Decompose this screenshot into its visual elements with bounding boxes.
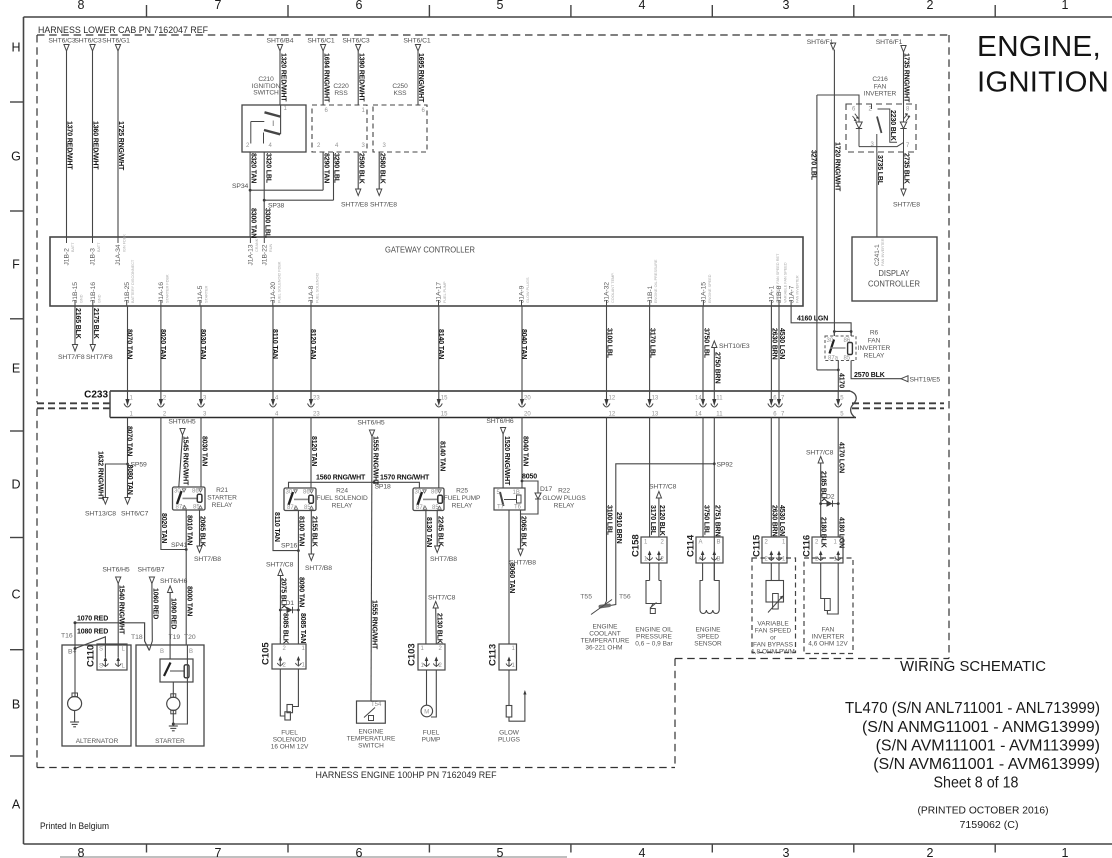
svg-text:8140 TAN: 8140 TAN bbox=[438, 441, 445, 471]
svg-text:2: 2 bbox=[927, 0, 934, 12]
svg-text:1540 RNG/WHT: 1540 RNG/WHT bbox=[118, 585, 125, 635]
svg-text:SHT6/H5: SHT6/H5 bbox=[102, 567, 130, 574]
svg-text:2570 BLK: 2570 BLK bbox=[854, 372, 885, 379]
svg-text:FUEL PUMP: FUEL PUMP bbox=[443, 281, 447, 303]
svg-text:7159062 (C): 7159062 (C) bbox=[960, 819, 1019, 831]
svg-text:B: B bbox=[12, 698, 20, 712]
svg-text:2155 BLK: 2155 BLK bbox=[311, 516, 318, 547]
svg-text:T18: T18 bbox=[131, 634, 143, 641]
svg-text:J1A-17: J1A-17 bbox=[436, 282, 443, 303]
svg-text:T7: T7 bbox=[497, 505, 505, 511]
svg-text:SWITCH: SWITCH bbox=[253, 90, 279, 97]
svg-text:2165 BLK: 2165 BLK bbox=[74, 308, 81, 339]
svg-text:4: 4 bbox=[639, 846, 646, 858]
svg-text:COOLANT: COOLANT bbox=[589, 631, 620, 638]
svg-text:BATT: BATT bbox=[71, 242, 75, 252]
svg-text:SHT13/C8: SHT13/C8 bbox=[85, 511, 116, 518]
svg-text:1070 RED: 1070 RED bbox=[77, 615, 108, 622]
svg-text:86: 86 bbox=[844, 338, 851, 344]
svg-text:DISPLAY: DISPLAY bbox=[879, 268, 910, 278]
svg-text:87a: 87a bbox=[828, 356, 839, 362]
svg-text:WIRING SCHEMATIC: WIRING SCHEMATIC bbox=[900, 658, 1046, 675]
svg-text:4: 4 bbox=[639, 0, 646, 12]
svg-text:PUMP: PUMP bbox=[422, 737, 441, 744]
svg-text:F: F bbox=[12, 258, 20, 272]
svg-text:15: 15 bbox=[441, 412, 448, 418]
svg-text:E: E bbox=[12, 362, 20, 376]
svg-text:SHT6/B7: SHT6/B7 bbox=[138, 567, 165, 574]
svg-text:1080 RED: 1080 RED bbox=[77, 629, 108, 636]
svg-text:Sheet 8 of 18: Sheet 8 of 18 bbox=[934, 775, 1019, 792]
svg-text:J1B-2: J1B-2 bbox=[64, 248, 71, 266]
svg-text:T16: T16 bbox=[61, 633, 73, 640]
svg-text:T55: T55 bbox=[580, 594, 592, 601]
svg-text:J1B-8: J1B-8 bbox=[776, 285, 783, 303]
svg-text:VARIABLE FAN SPEED: VARIABLE FAN SPEED bbox=[784, 262, 788, 303]
svg-text:STARTER FDBK: STARTER FDBK bbox=[165, 274, 169, 303]
svg-text:SWITCH: SWITCH bbox=[358, 743, 384, 750]
svg-text:STARTER: STARTER bbox=[155, 738, 185, 745]
svg-text:HARNESS LOWER CAB PN 7162047 R: HARNESS LOWER CAB PN 7162047 REF bbox=[38, 25, 209, 35]
svg-text:0,6 ~ 0,9 Bar: 0,6 ~ 0,9 Bar bbox=[635, 641, 673, 648]
svg-text:J1B-15: J1B-15 bbox=[72, 282, 79, 303]
svg-text:J1A-32: J1A-32 bbox=[604, 282, 611, 303]
svg-text:4170: 4170 bbox=[837, 373, 844, 388]
svg-text:8120 TAN: 8120 TAN bbox=[310, 436, 317, 466]
svg-text:20: 20 bbox=[524, 412, 531, 418]
svg-text:8080 TAN: 8080 TAN bbox=[126, 465, 133, 495]
svg-text:1555 RNG/WHT: 1555 RNG/WHT bbox=[371, 600, 378, 650]
svg-text:SHT7/C8: SHT7/C8 bbox=[806, 449, 834, 456]
svg-text:SHT7/E8: SHT7/E8 bbox=[370, 202, 397, 209]
svg-text:FAN INVERTER: FAN INVERTER bbox=[796, 275, 800, 303]
svg-text:SHT19/E5: SHT19/E5 bbox=[910, 377, 941, 384]
svg-text:8040 TAN: 8040 TAN bbox=[521, 436, 528, 466]
svg-text:14: 14 bbox=[695, 412, 702, 418]
svg-text:COOLANT TEMP.: COOLANT TEMP. bbox=[611, 273, 615, 303]
svg-text:8085 TAN: 8085 TAN bbox=[299, 613, 306, 643]
svg-text:1,8 OHM PWM: 1,8 OHM PWM bbox=[751, 649, 795, 656]
svg-text:2735 BLK: 2735 BLK bbox=[903, 153, 910, 184]
svg-text:(S/N AVM611001 - AVM613999): (S/N AVM611001 - AVM613999) bbox=[873, 756, 1100, 773]
svg-text:C233: C233 bbox=[84, 390, 108, 401]
svg-text:2230 BLK: 2230 BLK bbox=[889, 110, 896, 141]
svg-text:SHT6/F1: SHT6/F1 bbox=[876, 39, 903, 46]
svg-text:3320 LBL: 3320 LBL bbox=[265, 153, 272, 184]
svg-text:FUEL SOLENOID: FUEL SOLENOID bbox=[316, 495, 368, 502]
svg-text:J1A-7: J1A-7 bbox=[788, 285, 795, 303]
svg-text:FAN: FAN bbox=[822, 627, 835, 634]
svg-text:1B: 1B bbox=[513, 490, 520, 496]
svg-text:3: 3 bbox=[783, 846, 790, 858]
svg-text:M: M bbox=[424, 710, 429, 716]
svg-text:1390 RED/WHT: 1390 RED/WHT bbox=[357, 53, 364, 102]
svg-text:ENGINE: ENGINE bbox=[696, 627, 722, 634]
svg-text:A: A bbox=[12, 798, 21, 812]
svg-text:SP92: SP92 bbox=[717, 462, 734, 469]
svg-text:36-221 OHM: 36-221 OHM bbox=[585, 645, 622, 652]
svg-text:SHT7/E8: SHT7/E8 bbox=[893, 202, 920, 209]
svg-text:4160 LGN: 4160 LGN bbox=[797, 316, 828, 323]
svg-text:J1B-16: J1B-16 bbox=[90, 282, 97, 303]
svg-text:SHT6/C1: SHT6/C1 bbox=[307, 38, 335, 45]
svg-text:TEMPERATURE: TEMPERATURE bbox=[347, 736, 396, 743]
svg-text:FUEL PUMP: FUEL PUMP bbox=[444, 495, 481, 502]
svg-text:3100 LBL: 3100 LBL bbox=[606, 505, 613, 536]
svg-text:2910 BRN: 2910 BRN bbox=[615, 512, 622, 544]
svg-text:CONTROLLER: CONTROLLER bbox=[868, 279, 920, 289]
svg-text:3290 LBL: 3290 LBL bbox=[333, 153, 340, 184]
svg-text:SHT6/H6: SHT6/H6 bbox=[160, 578, 188, 585]
svg-text:(S/N AVM111001 - AVM113999): (S/N AVM111001 - AVM113999) bbox=[876, 738, 1100, 755]
svg-text:T6: T6 bbox=[514, 505, 522, 511]
svg-text:3735 LBL: 3735 LBL bbox=[876, 155, 883, 186]
svg-text:RELAY: RELAY bbox=[332, 503, 353, 510]
svg-text:11: 11 bbox=[716, 396, 723, 402]
svg-text:INVERTER: INVERTER bbox=[812, 634, 845, 641]
svg-text:2750 BRN: 2750 BRN bbox=[713, 352, 720, 384]
svg-text:15: 15 bbox=[441, 396, 448, 402]
svg-text:23: 23 bbox=[313, 412, 320, 418]
svg-text:4170 LGN: 4170 LGN bbox=[837, 442, 844, 473]
svg-text:C: C bbox=[11, 588, 20, 602]
svg-text:ENGINE: ENGINE bbox=[359, 729, 385, 736]
svg-text:B: B bbox=[160, 649, 164, 655]
svg-text:5: 5 bbox=[497, 0, 504, 12]
svg-text:SHT7/B8: SHT7/B8 bbox=[509, 560, 536, 567]
svg-text:8140 TAN: 8140 TAN bbox=[437, 329, 444, 359]
svg-text:1320 RED/WHT: 1320 RED/WHT bbox=[280, 53, 287, 102]
svg-text:1360 RED/WHT: 1360 RED/WHT bbox=[92, 121, 99, 170]
svg-text:ENGINE OIL: ENGINE OIL bbox=[635, 627, 673, 634]
svg-text:30: 30 bbox=[286, 490, 293, 496]
svg-text:SHT6/H5: SHT6/H5 bbox=[168, 419, 196, 426]
svg-text:J1B-1: J1B-1 bbox=[647, 285, 654, 303]
svg-text:3170 LBL: 3170 LBL bbox=[649, 328, 656, 359]
svg-text:2065 BLK: 2065 BLK bbox=[520, 516, 527, 547]
svg-text:1560 RNG/WHT: 1560 RNG/WHT bbox=[316, 475, 366, 482]
svg-text:SHT7/C8: SHT7/C8 bbox=[428, 595, 456, 602]
svg-text:INVERTER: INVERTER bbox=[864, 91, 897, 98]
svg-text:8: 8 bbox=[78, 846, 85, 858]
svg-text:RSS: RSS bbox=[334, 90, 348, 97]
svg-text:8290 TAN: 8290 TAN bbox=[322, 153, 329, 183]
svg-text:J1B-22: J1B-22 bbox=[262, 244, 269, 265]
svg-text:8050: 8050 bbox=[522, 474, 537, 481]
svg-text:FAN INVERTER: FAN INVERTER bbox=[881, 238, 885, 266]
svg-text:8030 TAN: 8030 TAN bbox=[199, 329, 206, 359]
svg-text:J1A-9: J1A-9 bbox=[519, 285, 526, 303]
svg-text:C216: C216 bbox=[872, 76, 888, 83]
svg-text:GND: GND bbox=[97, 294, 101, 303]
svg-text:IGN FDBK: IGN FDBK bbox=[123, 234, 127, 252]
svg-text:GLOW PLUGS: GLOW PLUGS bbox=[526, 277, 530, 303]
svg-text:85: 85 bbox=[844, 356, 851, 362]
svg-text:SHT6/G1: SHT6/G1 bbox=[102, 38, 130, 45]
svg-text:6: 6 bbox=[356, 0, 363, 12]
svg-text:SHT7/B8: SHT7/B8 bbox=[194, 556, 221, 563]
svg-text:8: 8 bbox=[78, 0, 85, 12]
svg-text:2630 BRN: 2630 BRN bbox=[771, 505, 778, 537]
svg-text:SHT7/F8: SHT7/F8 bbox=[58, 354, 85, 361]
svg-text:SHT6/H6: SHT6/H6 bbox=[486, 418, 514, 425]
svg-text:D1: D1 bbox=[286, 600, 295, 607]
svg-text:SHT7/F8: SHT7/F8 bbox=[86, 354, 113, 361]
svg-text:1: 1 bbox=[1062, 846, 1069, 858]
svg-text:J1A-8: J1A-8 bbox=[308, 285, 315, 303]
svg-text:SPEED: SPEED bbox=[697, 634, 719, 641]
svg-text:SHT6/H5: SHT6/H5 bbox=[357, 420, 385, 427]
svg-text:23: 23 bbox=[313, 396, 320, 402]
svg-text:SP16: SP16 bbox=[281, 543, 298, 550]
svg-text:3300 LBL: 3300 LBL bbox=[263, 208, 270, 239]
svg-text:SHT6/C3: SHT6/C3 bbox=[74, 38, 102, 45]
svg-text:7: 7 bbox=[215, 0, 222, 12]
svg-text:R6: R6 bbox=[870, 330, 879, 337]
svg-text:1570 RNG/WHT: 1570 RNG/WHT bbox=[380, 475, 430, 482]
svg-text:SP34: SP34 bbox=[232, 183, 249, 190]
svg-text:A: A bbox=[699, 540, 703, 546]
svg-text:1632 RNG/WHT: 1632 RNG/WHT bbox=[97, 451, 104, 501]
svg-text:STARTER: STARTER bbox=[207, 495, 237, 502]
svg-text:FAN BYPASS: FAN BYPASS bbox=[753, 642, 794, 649]
svg-text:ENGINE SPEED: ENGINE SPEED bbox=[708, 274, 712, 303]
svg-text:8020 TAN: 8020 TAN bbox=[160, 513, 167, 543]
svg-text:R21: R21 bbox=[216, 487, 228, 494]
svg-text:C105: C105 bbox=[261, 642, 272, 665]
svg-text:J1A-1: J1A-1 bbox=[769, 285, 776, 303]
svg-text:J1A-5: J1A-5 bbox=[197, 285, 204, 303]
svg-text:8110 TAN: 8110 TAN bbox=[271, 329, 278, 359]
svg-text:7: 7 bbox=[215, 846, 222, 858]
svg-text:S: S bbox=[99, 647, 103, 653]
svg-text:4530 LGN: 4530 LGN bbox=[778, 505, 785, 536]
svg-text:5: 5 bbox=[497, 846, 504, 858]
svg-text:8060 TAN: 8060 TAN bbox=[508, 563, 515, 593]
svg-text:SHT7/C8: SHT7/C8 bbox=[649, 483, 677, 490]
svg-text:8100 TAN: 8100 TAN bbox=[298, 516, 305, 546]
svg-text:2: 2 bbox=[927, 846, 934, 858]
svg-text:S: S bbox=[99, 664, 103, 670]
svg-text:30: 30 bbox=[415, 490, 422, 496]
svg-text:1720 RNG/WHT: 1720 RNG/WHT bbox=[834, 142, 841, 192]
svg-text:RUN: RUN bbox=[269, 244, 273, 252]
svg-text:INVERTER: INVERTER bbox=[858, 345, 891, 352]
svg-text:8110 TAN: 8110 TAN bbox=[273, 512, 280, 542]
svg-text:SHT6/C7: SHT6/C7 bbox=[121, 511, 149, 518]
svg-text:TEMPERATURE: TEMPERATURE bbox=[581, 638, 630, 645]
svg-text:1725 RNG/WHT: 1725 RNG/WHT bbox=[117, 121, 124, 171]
svg-text:16 OHM 12V: 16 OHM 12V bbox=[271, 744, 309, 751]
svg-text:T20: T20 bbox=[184, 634, 196, 641]
svg-text:8320 TAN: 8320 TAN bbox=[249, 153, 256, 183]
svg-text:C116: C116 bbox=[802, 535, 813, 557]
svg-text:D17: D17 bbox=[540, 486, 552, 493]
svg-text:SENSOR: SENSOR bbox=[694, 641, 722, 648]
svg-text:B: B bbox=[717, 540, 721, 546]
svg-text:SHT6/C3: SHT6/C3 bbox=[342, 38, 370, 45]
svg-text:6: 6 bbox=[356, 846, 363, 858]
svg-text:8070 TAN: 8070 TAN bbox=[126, 329, 133, 359]
svg-text:13: 13 bbox=[652, 396, 659, 402]
svg-text:12: 12 bbox=[609, 412, 616, 418]
svg-text:or: or bbox=[770, 635, 777, 642]
svg-text:J1A-20: J1A-20 bbox=[270, 282, 277, 303]
svg-text:GLOW PLUGS: GLOW PLUGS bbox=[542, 495, 586, 502]
svg-text:3750 LBL: 3750 LBL bbox=[702, 505, 709, 536]
svg-text:FUEL: FUEL bbox=[423, 730, 440, 737]
svg-text:RELAY: RELAY bbox=[864, 353, 885, 360]
svg-text:R25: R25 bbox=[456, 488, 468, 495]
svg-text:SHT6/B4: SHT6/B4 bbox=[267, 38, 294, 45]
svg-text:J1A-16: J1A-16 bbox=[158, 282, 165, 303]
svg-text:ENGINE,: ENGINE, bbox=[977, 31, 1101, 63]
svg-text:C113: C113 bbox=[488, 644, 499, 666]
svg-text:1060 RED: 1060 RED bbox=[151, 588, 158, 619]
svg-text:STARTER: STARTER bbox=[205, 285, 209, 303]
svg-text:SHT10/E3: SHT10/E3 bbox=[719, 343, 750, 350]
svg-text:FUEL SOLENOID: FUEL SOLENOID bbox=[316, 273, 320, 303]
svg-text:SHT6/F1: SHT6/F1 bbox=[807, 39, 834, 46]
svg-text:1520 RNG/WHT: 1520 RNG/WHT bbox=[503, 436, 510, 486]
svg-text:8300 TAN: 8300 TAN bbox=[249, 208, 256, 238]
svg-text:PLUGS: PLUGS bbox=[498, 737, 521, 744]
svg-text:1545 RNG/WHT: 1545 RNG/WHT bbox=[182, 436, 189, 486]
svg-text:(PRINTED OCTOBER 2016): (PRINTED OCTOBER 2016) bbox=[918, 805, 1049, 817]
svg-text:RELAY: RELAY bbox=[554, 503, 575, 510]
svg-text:20: 20 bbox=[524, 396, 531, 402]
svg-text:2175 BLK: 2175 BLK bbox=[92, 308, 99, 339]
svg-text:2751 BRN: 2751 BRN bbox=[714, 505, 721, 537]
svg-text:C103: C103 bbox=[407, 643, 418, 666]
svg-text:1370 RED/WHT: 1370 RED/WHT bbox=[66, 121, 73, 170]
svg-text:GATEWAY CONTROLLER: GATEWAY CONTROLLER bbox=[385, 245, 475, 255]
svg-text:ALTERNATOR: ALTERNATOR bbox=[76, 738, 119, 745]
svg-text:3750 LBL: 3750 LBL bbox=[703, 328, 710, 359]
svg-text:8130 TAN: 8130 TAN bbox=[425, 517, 432, 547]
svg-text:2130 BLK: 2130 BLK bbox=[436, 613, 443, 644]
svg-text:FAN: FAN bbox=[874, 84, 887, 91]
svg-text:T56: T56 bbox=[619, 594, 631, 601]
svg-text:8040 TAN: 8040 TAN bbox=[520, 329, 527, 359]
svg-text:ENGINE OIL PRESSURE: ENGINE OIL PRESSURE bbox=[654, 259, 658, 303]
svg-text:1735 RNG/WHT: 1735 RNG/WHT bbox=[903, 53, 910, 103]
svg-text:FUEL: FUEL bbox=[281, 730, 298, 737]
svg-text:SOLENOID: SOLENOID bbox=[273, 737, 307, 744]
svg-text:J1B-3: J1B-3 bbox=[90, 248, 97, 266]
svg-text:ENGINE: ENGINE bbox=[593, 624, 619, 631]
svg-text:GLOW: GLOW bbox=[499, 730, 520, 737]
svg-text:1695 RNG/WHT: 1695 RNG/WHT bbox=[417, 53, 424, 103]
svg-text:2120 BLK: 2120 BLK bbox=[658, 505, 665, 536]
svg-text:1694 RNG/WHT: 1694 RNG/WHT bbox=[322, 53, 329, 103]
svg-text:C115: C115 bbox=[752, 534, 763, 557]
svg-text:8010 TAN: 8010 TAN bbox=[185, 515, 192, 545]
svg-text:8020 TAN: 8020 TAN bbox=[159, 329, 166, 359]
svg-text:SHT7/B8: SHT7/B8 bbox=[305, 565, 332, 572]
svg-text:VARIABLE: VARIABLE bbox=[757, 621, 789, 628]
svg-text:8030 TAN: 8030 TAN bbox=[201, 436, 208, 466]
svg-text:86: 86 bbox=[192, 489, 199, 495]
svg-text:H: H bbox=[11, 41, 20, 55]
svg-text:FUEL SOLENOID FDBK: FUEL SOLENOID FDBK bbox=[277, 261, 281, 303]
svg-text:86: 86 bbox=[303, 490, 310, 496]
svg-text:CRANK: CRANK bbox=[255, 238, 259, 252]
svg-text:4,6 OHM 12V: 4,6 OHM 12V bbox=[808, 641, 848, 648]
svg-text:8000 TAN: 8000 TAN bbox=[185, 586, 192, 616]
svg-text:3170 LBL: 3170 LBL bbox=[649, 505, 656, 536]
svg-text:R24: R24 bbox=[336, 488, 348, 495]
svg-text:2580 BLK: 2580 BLK bbox=[378, 153, 385, 184]
svg-text:BATTERY DISCONNECT: BATTERY DISCONNECT bbox=[131, 259, 135, 303]
svg-text:FAN: FAN bbox=[868, 338, 881, 345]
svg-text:SP41: SP41 bbox=[171, 542, 188, 549]
svg-text:11: 11 bbox=[716, 412, 723, 418]
svg-text:3100 LBL: 3100 LBL bbox=[606, 328, 613, 359]
svg-text:1555 RNG/WHT: 1555 RNG/WHT bbox=[372, 436, 379, 486]
svg-text:3270 LBL: 3270 LBL bbox=[809, 150, 816, 181]
svg-text:30: 30 bbox=[174, 489, 181, 495]
svg-text:B: B bbox=[189, 649, 193, 655]
svg-text:GND: GND bbox=[80, 294, 84, 303]
svg-text:SHT7/B8: SHT7/B8 bbox=[430, 556, 457, 563]
svg-text:8090 TAN: 8090 TAN bbox=[297, 577, 304, 607]
svg-text:SHT7/C8: SHT7/C8 bbox=[266, 562, 294, 569]
svg-text:C114: C114 bbox=[686, 534, 697, 557]
svg-text:C158: C158 bbox=[631, 534, 642, 557]
svg-text:2245 BLK: 2245 BLK bbox=[436, 516, 443, 547]
svg-text:SHT6/C1: SHT6/C1 bbox=[403, 38, 431, 45]
svg-text:13: 13 bbox=[652, 412, 659, 418]
svg-text:J1A-13: J1A-13 bbox=[248, 244, 255, 265]
svg-text:D: D bbox=[11, 478, 20, 492]
svg-text:T54: T54 bbox=[371, 702, 382, 708]
svg-text:Printed In Belgium: Printed In Belgium bbox=[40, 821, 109, 832]
svg-text:KSS: KSS bbox=[394, 90, 408, 97]
svg-text:8120 TAN: 8120 TAN bbox=[309, 329, 316, 359]
svg-text:86: 86 bbox=[431, 490, 438, 496]
svg-text:R22: R22 bbox=[558, 488, 570, 495]
svg-text:SHT7/E8: SHT7/E8 bbox=[341, 202, 368, 209]
svg-text:D2: D2 bbox=[826, 494, 835, 501]
svg-text:SHT6/C3: SHT6/C3 bbox=[48, 38, 76, 45]
svg-text:3: 3 bbox=[783, 0, 790, 12]
svg-text:30: 30 bbox=[827, 338, 834, 344]
svg-text:2180 BLK: 2180 BLK bbox=[820, 517, 827, 548]
svg-text:8085 BLK: 8085 BLK bbox=[282, 613, 289, 644]
svg-text:FAN SPEED: FAN SPEED bbox=[755, 628, 792, 635]
svg-text:PRESSURE: PRESSURE bbox=[636, 634, 672, 641]
svg-text:G: G bbox=[11, 150, 21, 164]
svg-text:J1A-34: J1A-34 bbox=[115, 244, 122, 265]
svg-text:14: 14 bbox=[695, 396, 702, 402]
svg-text:BATT: BATT bbox=[97, 242, 101, 252]
svg-text:1: 1 bbox=[1062, 0, 1069, 12]
svg-text:2065 BLK: 2065 BLK bbox=[199, 516, 206, 547]
svg-text:RELAY: RELAY bbox=[212, 502, 233, 509]
svg-text:HARNESS ENGINE 100HP PN 716204: HARNESS ENGINE 100HP PN 7162049 REF bbox=[316, 770, 498, 780]
svg-text:IGNITION: IGNITION bbox=[977, 67, 1109, 99]
svg-text:2590 BLK: 2590 BLK bbox=[357, 153, 364, 184]
svg-text:C110: C110 bbox=[86, 645, 97, 667]
svg-text:RELAY: RELAY bbox=[452, 503, 473, 510]
svg-text:1090 RED: 1090 RED bbox=[169, 598, 176, 629]
svg-text:J1A-15: J1A-15 bbox=[701, 282, 708, 303]
svg-text:8070 TAN: 8070 TAN bbox=[126, 426, 133, 456]
svg-text:TL470 (S/N ANL711001 - ANL7139: TL470 (S/N ANL711001 - ANL713999) bbox=[845, 700, 1100, 717]
svg-text:J1B-25: J1B-25 bbox=[124, 282, 131, 303]
svg-text:12: 12 bbox=[609, 396, 616, 402]
